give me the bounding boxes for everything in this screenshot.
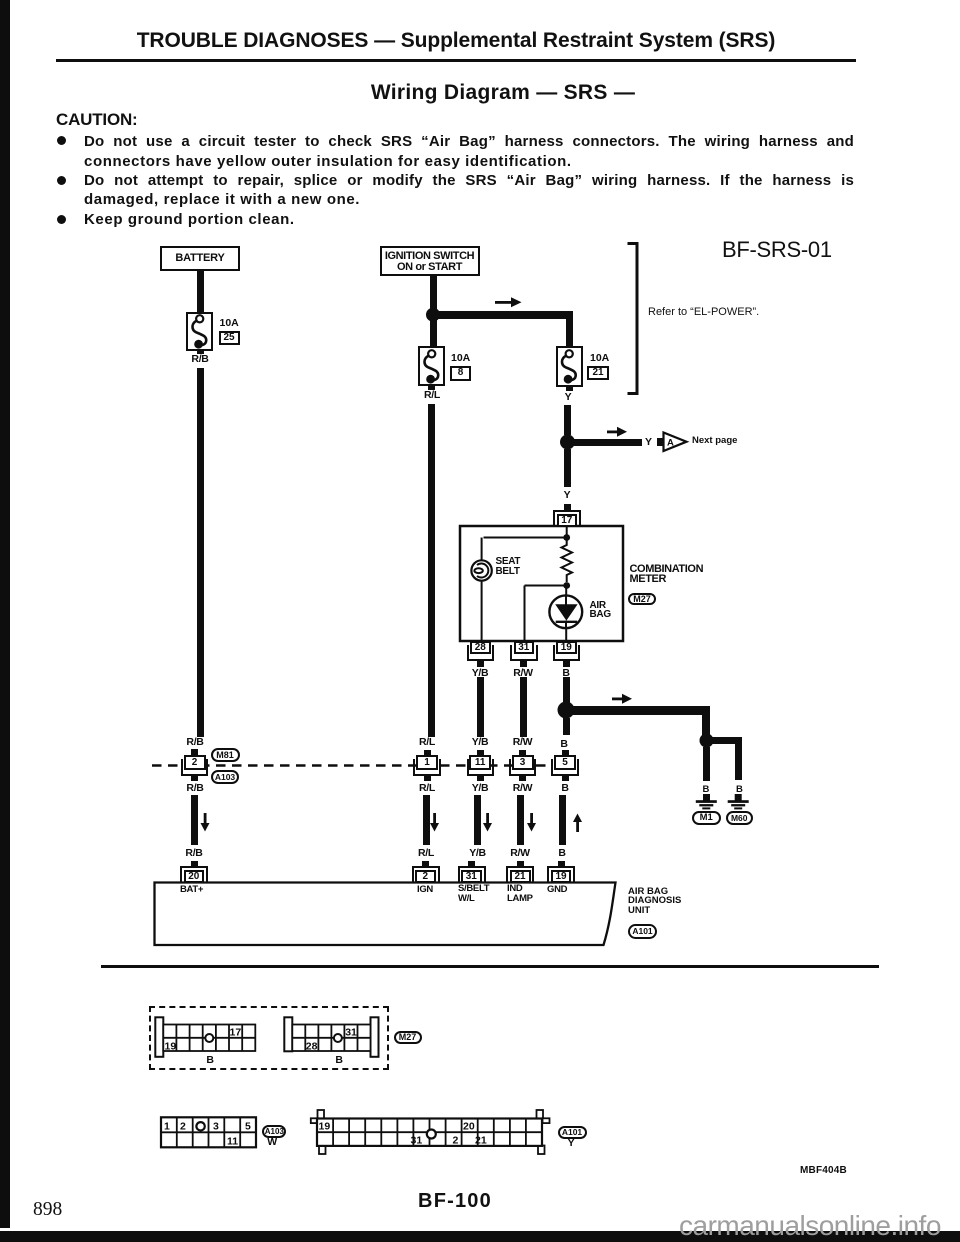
svg-text:1: 1 [164, 1120, 170, 1132]
svg-text:11: 11 [227, 1136, 238, 1148]
svg-text:21: 21 [475, 1135, 487, 1147]
svg-text:31: 31 [345, 1027, 357, 1039]
svg-text:2: 2 [453, 1135, 459, 1147]
svg-text:2: 2 [180, 1120, 186, 1132]
svg-text:28: 28 [306, 1041, 318, 1053]
svg-text:5: 5 [245, 1120, 251, 1132]
svg-text:19: 19 [165, 1041, 177, 1053]
svg-text:31: 31 [411, 1135, 423, 1147]
svg-text:3: 3 [213, 1120, 219, 1132]
svg-text:20: 20 [463, 1121, 475, 1133]
svg-text:19: 19 [319, 1121, 331, 1133]
svg-text:17: 17 [230, 1027, 242, 1039]
svg-text:A: A [667, 438, 674, 449]
